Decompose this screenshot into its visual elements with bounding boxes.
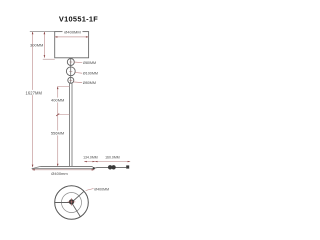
svg-text:160.0MM: 160.0MM bbox=[105, 156, 120, 160]
svg-text:134.0MM: 134.0MM bbox=[83, 156, 98, 160]
svg-text:Ø400MM: Ø400MM bbox=[64, 29, 80, 34]
svg-text:Ø400MM: Ø400MM bbox=[94, 187, 109, 191]
svg-text:Ø100MM: Ø100MM bbox=[83, 72, 98, 76]
svg-text:400MM: 400MM bbox=[51, 98, 64, 103]
svg-text:V10551-1F: V10551-1F bbox=[59, 14, 98, 23]
svg-text:300MM: 300MM bbox=[30, 43, 43, 48]
svg-text:556MM: 556MM bbox=[51, 131, 64, 136]
svg-text:Ø80MM: Ø80MM bbox=[83, 61, 96, 65]
svg-text:Ø80MM: Ø80MM bbox=[83, 81, 96, 85]
svg-text:1627MM: 1627MM bbox=[26, 91, 43, 96]
svg-text:Ø400mm: Ø400mm bbox=[51, 171, 68, 176]
